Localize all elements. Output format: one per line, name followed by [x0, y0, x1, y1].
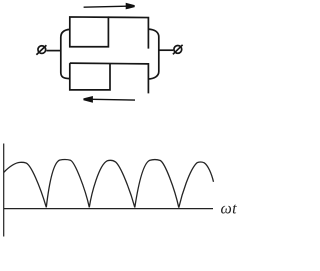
svg-text:ωt: ωt: [221, 201, 238, 218]
